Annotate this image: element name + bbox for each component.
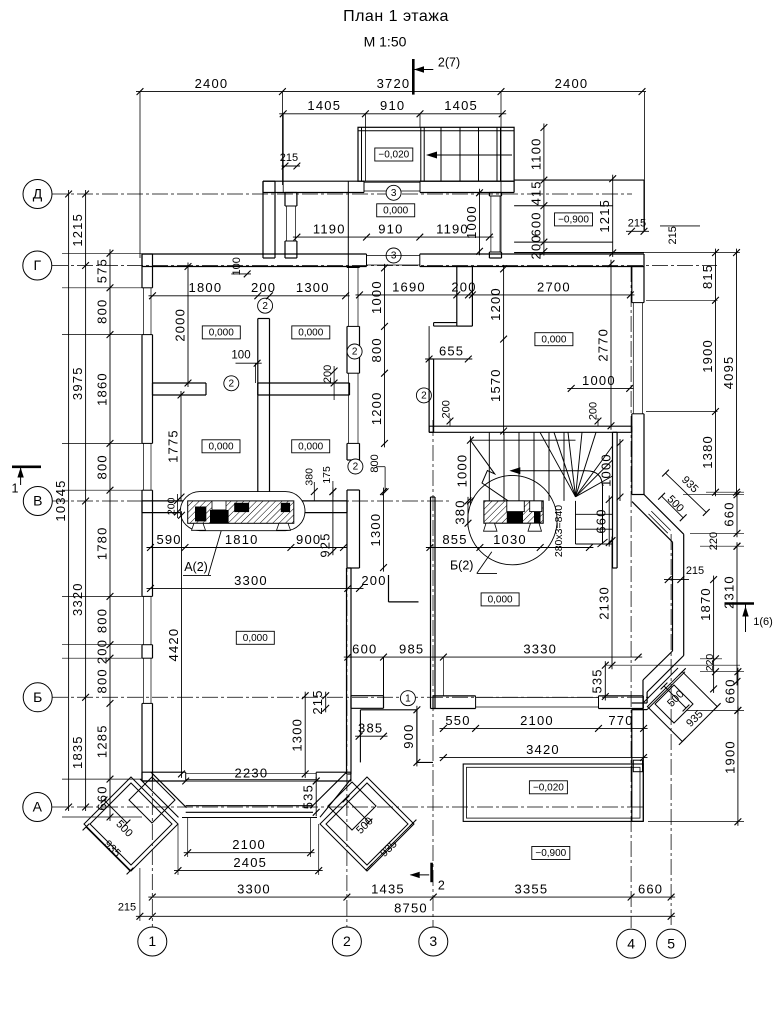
svg-text:1000: 1000 xyxy=(454,454,469,488)
svg-text:3420: 3420 xyxy=(526,742,560,757)
bottom extension lines xyxy=(139,868,141,921)
svg-text:200: 200 xyxy=(528,234,543,259)
svg-text:815: 815 xyxy=(700,264,715,289)
wall at B axis piece xyxy=(351,695,384,697)
svg-text:0,000: 0,000 xyxy=(208,441,233,452)
svg-text:1435: 1435 xyxy=(371,882,405,897)
svg-text:3330: 3330 xyxy=(523,642,557,657)
level label 0,000 middle room xyxy=(236,631,274,644)
svg-text:0,000: 0,000 xyxy=(243,633,268,644)
svg-text:1215: 1215 xyxy=(70,213,85,247)
porch right dim 935 xyxy=(369,823,413,867)
svg-text:590: 590 xyxy=(156,532,181,547)
svg-text:−0,900: −0,900 xyxy=(535,848,566,859)
svg-text:М 1:50: М 1:50 xyxy=(364,34,407,50)
dim 900 lobby xyxy=(416,706,418,767)
svg-text:0,000: 0,000 xyxy=(383,205,408,216)
lobby walls xyxy=(360,709,417,711)
axis circle 5 xyxy=(657,929,686,958)
lower bay dim 500 xyxy=(664,686,686,708)
svg-text:2: 2 xyxy=(229,378,235,389)
svg-text:1200: 1200 xyxy=(488,287,503,321)
dim 660 lower flight xyxy=(608,496,610,547)
svg-text:0,000: 0,000 xyxy=(298,328,323,339)
svg-text:925: 925 xyxy=(317,532,332,557)
svg-text:380: 380 xyxy=(304,468,316,486)
svg-text:4420: 4420 xyxy=(166,628,181,662)
dim 4420 room height xyxy=(181,511,183,778)
svg-text:660: 660 xyxy=(721,501,736,526)
bottom dim chain xyxy=(148,896,675,898)
svg-text:200: 200 xyxy=(251,280,276,295)
svg-text:655: 655 xyxy=(439,343,464,358)
svg-text:1405: 1405 xyxy=(307,98,341,113)
axis line D xyxy=(52,193,632,195)
dim 215 vestibule wall xyxy=(282,165,301,167)
stair direction arrow xyxy=(516,471,603,544)
detail oval A2 with hatch xyxy=(180,492,305,531)
svg-text:2000: 2000 xyxy=(172,308,187,342)
svg-text:215: 215 xyxy=(310,689,325,714)
extension y665 xyxy=(605,664,740,666)
axis line B xyxy=(52,696,650,698)
dim chain 1000-800-1200 axis2 xyxy=(384,264,386,448)
svg-text:855: 855 xyxy=(442,532,467,547)
svg-text:1(6): 1(6) xyxy=(753,616,773,628)
porch chamfer left xyxy=(151,772,187,808)
svg-text:A(2): A(2) xyxy=(184,560,208,574)
terrace outline xyxy=(463,764,643,821)
svg-text:2: 2 xyxy=(353,462,359,473)
axis circle D xyxy=(23,180,52,209)
door mark 2 b xyxy=(224,376,239,391)
vestibule dim chain 1190-910-1190 xyxy=(293,236,494,238)
porch stair arrow xyxy=(433,154,512,156)
dim 385 lobby xyxy=(355,735,387,737)
svg-text:535: 535 xyxy=(301,784,316,809)
lower bay outer diamond xyxy=(647,672,717,742)
svg-text:800: 800 xyxy=(369,337,384,362)
axis circle 2 xyxy=(332,927,361,956)
svg-text:200: 200 xyxy=(94,639,109,664)
svg-text:2400: 2400 xyxy=(195,76,229,91)
reference line right of G xyxy=(644,252,740,254)
porch outline top xyxy=(358,127,514,181)
right extension lines xyxy=(646,299,718,301)
wall G xyxy=(142,253,367,255)
svg-text:2100: 2100 xyxy=(232,837,266,852)
right dim chain 4095 xyxy=(736,249,738,497)
svg-text:1000: 1000 xyxy=(598,453,613,487)
door mark 2 a xyxy=(258,298,273,313)
dim 1000 winder right xyxy=(619,439,621,501)
terrace east wall xyxy=(631,710,633,822)
dim 535 right xyxy=(604,661,606,700)
svg-text:1810: 1810 xyxy=(225,532,259,547)
svg-text:385: 385 xyxy=(358,721,383,736)
axis circle V xyxy=(23,487,52,516)
upper bay window walls xyxy=(632,502,673,542)
porch column right inner xyxy=(328,782,376,830)
svg-text:0,000: 0,000 xyxy=(541,334,566,345)
left dim chain detail xyxy=(109,249,111,821)
extension line x501 xyxy=(500,92,502,253)
porch right dim 500 xyxy=(346,799,369,822)
svg-text:1800: 1800 xyxy=(189,280,223,295)
extension line x420 xyxy=(419,114,421,127)
svg-text:1100: 1100 xyxy=(528,137,543,170)
wall row V xyxy=(142,500,347,502)
dim 200 right small xyxy=(333,366,335,400)
duct wall horizontal xyxy=(434,322,457,324)
svg-text:1835: 1835 xyxy=(70,735,85,769)
svg-text:900: 900 xyxy=(401,723,416,748)
svg-text:8750: 8750 xyxy=(394,901,428,916)
svg-text:3320: 3320 xyxy=(70,582,85,616)
svg-text:1: 1 xyxy=(12,481,19,495)
svg-text:215: 215 xyxy=(118,902,136,914)
svg-text:3300: 3300 xyxy=(237,882,271,897)
corner mark wall 200 xyxy=(388,575,390,602)
svg-text:3355: 3355 xyxy=(515,882,549,897)
svg-text:1: 1 xyxy=(148,933,156,949)
axis circle B xyxy=(23,683,52,712)
svg-text:1780: 1780 xyxy=(94,526,109,560)
svg-text:200: 200 xyxy=(440,400,452,418)
section mark 1(6) xyxy=(725,602,755,605)
svg-text:0,000: 0,000 xyxy=(298,441,323,452)
upper bay dim 935 xyxy=(666,473,707,512)
porch left dim 935 xyxy=(86,827,130,871)
dim 100 near G xyxy=(231,273,251,275)
axis circle G xyxy=(23,251,52,280)
dim 1000 winder left xyxy=(469,436,471,505)
svg-text:Б(2): Б(2) xyxy=(450,559,473,573)
svg-text:800: 800 xyxy=(94,299,109,324)
svg-text:0,000: 0,000 xyxy=(209,328,234,339)
east wall axis 4 xyxy=(631,267,633,303)
extension line left xyxy=(139,92,141,258)
interior wall H1 right xyxy=(258,382,350,384)
door mark 2 d xyxy=(348,459,363,474)
svg-text:1775: 1775 xyxy=(165,429,180,463)
axis line A xyxy=(52,806,645,808)
level label -0,020 terrace xyxy=(529,781,567,794)
svg-text:2: 2 xyxy=(352,347,358,358)
porch chain extensions xyxy=(187,818,189,857)
svg-text:215: 215 xyxy=(667,226,679,244)
dim 215 wall axis4 xyxy=(626,230,649,232)
axis circle 4 xyxy=(617,929,646,958)
stair treads lower flight xyxy=(575,501,577,544)
dim 1900 right xyxy=(737,706,739,825)
porch column right outer xyxy=(320,777,414,871)
svg-text:1000: 1000 xyxy=(464,205,479,239)
stair treads upper flight xyxy=(488,432,490,501)
axis line 4 xyxy=(630,266,632,928)
axis line V xyxy=(52,500,450,502)
dim 1215 right steps xyxy=(612,175,614,257)
axis line 5 xyxy=(670,534,672,928)
dim 660 upper bay xyxy=(736,491,738,538)
axis 3 wall xyxy=(430,497,432,709)
dim chain 1690-200 xyxy=(356,294,473,296)
dim 535 porch xyxy=(315,777,317,816)
svg-text:200: 200 xyxy=(451,279,476,294)
extension line x644 xyxy=(644,92,646,231)
detail circle B2 xyxy=(468,475,557,564)
vestibule west wall xyxy=(284,193,286,207)
left dim chain 10345 xyxy=(68,190,70,811)
dim 925 xyxy=(332,488,334,556)
stair east wall xyxy=(612,432,614,568)
detail label B2 xyxy=(477,552,492,574)
svg-text:175: 175 xyxy=(321,466,333,484)
svg-text:200: 200 xyxy=(361,573,386,588)
axis line G xyxy=(52,265,717,267)
axis line 1 xyxy=(151,774,153,928)
svg-text:1690: 1690 xyxy=(392,279,426,294)
axis circle A xyxy=(23,793,52,822)
svg-text:100: 100 xyxy=(231,350,250,362)
extension line x283 xyxy=(282,114,284,192)
door mark 2 e xyxy=(416,388,431,403)
level label room 1 xyxy=(202,326,240,339)
svg-text:550: 550 xyxy=(445,713,470,728)
svg-text:600: 600 xyxy=(352,642,377,657)
dim chain 600-985-3330 xyxy=(344,656,642,658)
svg-text:660: 660 xyxy=(638,882,663,897)
level label room 2 xyxy=(292,326,330,339)
extension line x365 xyxy=(364,114,366,181)
svg-text:Г: Г xyxy=(34,257,42,273)
svg-text:380: 380 xyxy=(452,499,467,524)
door mark 3 lower xyxy=(386,248,401,263)
svg-text:3: 3 xyxy=(429,933,437,949)
svg-text:220: 220 xyxy=(708,532,720,550)
svg-text:2230: 2230 xyxy=(235,765,269,780)
left outer wall xyxy=(141,254,143,288)
dim 2310 xyxy=(736,542,738,685)
svg-text:3300: 3300 xyxy=(234,573,268,588)
axis 2 wall lower xyxy=(346,490,348,568)
level label -0,900 top right xyxy=(555,213,593,226)
top dim chain 2400-3720-2400 xyxy=(136,91,646,93)
dim 3420 xyxy=(439,757,647,759)
door dim 1000 vestibule xyxy=(479,189,481,256)
extension x443 xyxy=(442,657,444,696)
dim chain 1200-1570 xyxy=(503,265,505,435)
level label room 3 xyxy=(202,440,240,453)
svg-text:1405: 1405 xyxy=(444,98,478,113)
stair north wall xyxy=(429,425,632,427)
left extension lines xyxy=(62,252,142,254)
svg-text:2: 2 xyxy=(438,878,445,892)
axis line 2 xyxy=(346,500,348,928)
section mark 2(7) xyxy=(412,59,415,95)
porch left dim 500 xyxy=(104,800,127,823)
svg-text:200: 200 xyxy=(322,365,334,383)
south wall with window xyxy=(433,695,476,697)
svg-text:575: 575 xyxy=(94,258,109,283)
svg-text:5: 5 xyxy=(667,935,675,951)
section mark 1 left xyxy=(12,465,41,468)
detail label A2 xyxy=(208,531,221,576)
svg-text:План 1 этажа: План 1 этажа xyxy=(343,8,449,25)
vestibule east wall xyxy=(488,193,490,197)
svg-text:3975: 3975 xyxy=(70,366,85,400)
door mark 2 c xyxy=(347,344,362,359)
left dim chain 1215-3975-3320-1835 xyxy=(85,190,87,811)
svg-text:−0,900: −0,900 xyxy=(558,215,589,226)
svg-text:2: 2 xyxy=(262,301,268,312)
svg-text:910: 910 xyxy=(380,98,405,113)
section mark 2 bottom xyxy=(430,863,433,883)
svg-text:2770: 2770 xyxy=(595,328,610,362)
level label 0,000 lower hall xyxy=(481,593,519,606)
dim chain 590-1810-900 xyxy=(147,547,348,549)
dim chain 855-1030-840 xyxy=(426,547,594,549)
dim 1300 B to wall xyxy=(304,692,306,778)
extension line x282 xyxy=(281,92,283,185)
svg-text:−0,020: −0,020 xyxy=(533,782,564,793)
svg-text:800: 800 xyxy=(94,608,109,633)
svg-text:1870: 1870 xyxy=(698,587,713,621)
svg-text:2: 2 xyxy=(421,391,427,402)
bearing wall detail hatch xyxy=(484,501,543,523)
svg-text:660: 660 xyxy=(722,678,737,703)
axis line 3 xyxy=(432,420,434,928)
svg-text:3: 3 xyxy=(391,251,397,262)
svg-text:415: 415 xyxy=(528,180,543,205)
top dim chain 1405-910-1405 xyxy=(279,113,506,115)
svg-text:1030: 1030 xyxy=(493,532,527,547)
svg-text:2405: 2405 xyxy=(233,855,267,870)
thin wall below axis2 xyxy=(346,568,348,774)
svg-text:1300: 1300 xyxy=(296,280,330,295)
svg-text:1285: 1285 xyxy=(94,724,109,758)
dim 2230 xyxy=(182,780,321,782)
svg-text:1300: 1300 xyxy=(368,513,383,547)
porch column left inner xyxy=(129,777,175,823)
wall D xyxy=(263,180,364,182)
svg-text:3720: 3720 xyxy=(377,76,411,91)
porch column left outer xyxy=(84,777,178,871)
svg-text:770: 770 xyxy=(608,713,633,728)
dim chain 550-2100-770 xyxy=(439,727,647,729)
svg-text:Д: Д xyxy=(33,186,43,202)
axis circle 1 xyxy=(138,927,167,956)
porch stair treads xyxy=(420,127,422,181)
svg-text:4095: 4095 xyxy=(721,356,736,390)
level label 0,000 vestibule xyxy=(377,204,415,217)
svg-text:4: 4 xyxy=(627,935,635,951)
svg-text:985: 985 xyxy=(399,642,424,657)
porch front edge xyxy=(186,805,313,807)
interior wall H1 left xyxy=(153,382,207,384)
right dim chain 815-1900-1380 xyxy=(715,249,717,497)
svg-text:2130: 2130 xyxy=(596,586,611,620)
svg-text:1380: 1380 xyxy=(700,435,715,469)
level label -0,020 porch xyxy=(375,148,413,161)
porch chamfer right xyxy=(311,772,347,808)
svg-text:1300: 1300 xyxy=(290,718,305,752)
svg-text:10345: 10345 xyxy=(53,479,68,521)
svg-text:100: 100 xyxy=(231,257,243,275)
svg-text:1860: 1860 xyxy=(94,372,109,406)
closet wall line xyxy=(383,657,385,696)
svg-text:2100: 2100 xyxy=(520,713,554,728)
bay to terrace wall xyxy=(672,542,674,651)
dim chain 1100-415-600-200 xyxy=(543,124,545,256)
svg-text:600: 600 xyxy=(528,211,543,236)
dim 1775 room xyxy=(180,391,182,501)
svg-text:800: 800 xyxy=(94,454,109,479)
svg-text:2: 2 xyxy=(343,933,351,949)
dim 3300-200 below oval xyxy=(147,587,364,589)
stair winder fan xyxy=(540,432,576,497)
svg-text:200: 200 xyxy=(165,497,177,515)
duct extension xyxy=(428,326,430,359)
dim 380 stair wall xyxy=(467,497,469,527)
door mark 3 upper xyxy=(386,185,401,200)
upper bay dim 500 xyxy=(662,496,684,518)
svg-text:−0,020: −0,020 xyxy=(378,150,409,161)
svg-text:1200: 1200 xyxy=(369,391,384,425)
svg-text:220: 220 xyxy=(704,654,716,672)
svg-text:215: 215 xyxy=(628,218,646,230)
interior wall V1 xyxy=(257,319,259,502)
bottom dim chain 8750 xyxy=(136,915,675,917)
vestibule partition line xyxy=(347,181,349,266)
svg-text:1900: 1900 xyxy=(722,740,737,774)
svg-text:280x3=840: 280x3=840 xyxy=(553,505,565,557)
svg-text:800: 800 xyxy=(94,668,109,693)
stair flight edge xyxy=(470,439,575,441)
door mark 1 xyxy=(400,691,415,706)
dim 215 B wall xyxy=(325,692,327,713)
dim 655 xyxy=(425,358,472,360)
steps top right xyxy=(514,179,644,181)
dim 2770 xyxy=(610,260,612,430)
dim 215 right edge xyxy=(660,225,700,227)
svg-text:Б: Б xyxy=(33,689,42,705)
level label room 4 xyxy=(292,440,330,453)
duct wall vertical xyxy=(456,267,458,327)
svg-text:1215: 1215 xyxy=(597,199,612,233)
axis 2 wall upper xyxy=(346,267,348,268)
dim 660 lower bay xyxy=(737,668,739,715)
dim 1870 xyxy=(713,576,715,693)
svg-text:535: 535 xyxy=(590,668,605,693)
level label 0,000 top right room xyxy=(535,333,573,346)
svg-text:0,000: 0,000 xyxy=(488,595,513,606)
lower bay inner diamond xyxy=(655,685,693,723)
axis circle 3 xyxy=(419,927,448,956)
svg-text:3: 3 xyxy=(391,188,397,199)
svg-text:1: 1 xyxy=(405,693,411,704)
dim chain 1800-200-1300 xyxy=(149,295,350,297)
dim 2700 xyxy=(468,294,634,296)
svg-text:В: В xyxy=(33,493,42,509)
svg-text:215: 215 xyxy=(686,565,704,577)
svg-text:А: А xyxy=(33,799,43,815)
svg-text:200: 200 xyxy=(588,402,600,420)
wall left of stair hall xyxy=(428,359,430,432)
level label -0,900 bottom xyxy=(532,847,570,860)
svg-text:2400: 2400 xyxy=(555,76,589,91)
svg-text:1190: 1190 xyxy=(313,222,346,237)
